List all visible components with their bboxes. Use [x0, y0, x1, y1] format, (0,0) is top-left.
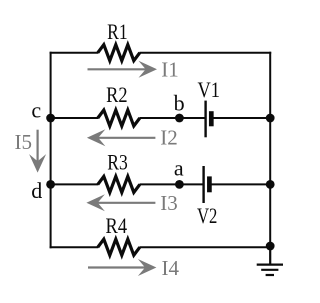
resistor R3 — [98, 176, 140, 192]
svg-text:b: b — [174, 91, 185, 116]
arrow I4 — [88, 259, 156, 276]
arrow I5 — [29, 130, 46, 173]
arrow I1 — [88, 61, 158, 78]
svg-text:a: a — [174, 156, 184, 181]
node a — [175, 180, 184, 189]
svg-text:c: c — [31, 98, 41, 123]
resistor R4 — [98, 239, 140, 255]
svg-text:R4: R4 — [106, 213, 128, 238]
svg-text:I4: I4 — [162, 256, 180, 280]
junction right row2 — [266, 114, 275, 123]
svg-text:I5: I5 — [15, 130, 33, 154]
svg-text:I3: I3 — [160, 191, 178, 215]
arrow I3 — [86, 194, 155, 211]
wire row d-a — [51, 183, 99, 185]
wire right bus — [269, 52, 271, 249]
node c — [46, 114, 55, 123]
svg-text:R2: R2 — [106, 82, 128, 107]
wire bottom row — [50, 246, 99, 248]
svg-text:I2: I2 — [160, 126, 178, 150]
wire top row leads — [50, 52, 99, 54]
junction ground — [266, 242, 275, 251]
svg-text:V2: V2 — [197, 203, 217, 228]
svg-text:R1: R1 — [107, 19, 128, 44]
wire row c-b — [51, 117, 99, 119]
svg-text:R3: R3 — [107, 150, 128, 175]
wire left bus — [50, 52, 52, 249]
battery V1 — [206, 101, 212, 138]
node d — [46, 180, 55, 189]
resistor R1 — [98, 45, 140, 61]
ground — [257, 246, 283, 275]
svg-text:d: d — [31, 178, 42, 203]
svg-text:I1: I1 — [161, 58, 179, 82]
battery V2 — [204, 166, 210, 203]
resistor R2 — [98, 110, 140, 126]
svg-text:V1: V1 — [198, 77, 220, 102]
junction right row3 — [266, 180, 275, 189]
node b — [175, 114, 184, 123]
arrow I2 — [87, 129, 155, 146]
